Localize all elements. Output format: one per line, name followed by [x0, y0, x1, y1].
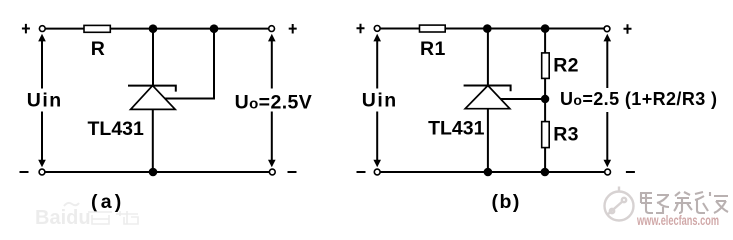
wire (top, R1 to output terminal, circuit b): [445, 28, 604, 30]
node junction dot (divider top, circuit b): [541, 24, 550, 33]
svg-text:R2: R2: [553, 54, 579, 76]
svg-text:Uin: Uin: [362, 89, 398, 111]
node + (top-left, circuit b): [357, 24, 365, 34]
TL431 U2 cathode bar: [464, 86, 511, 92]
node junction dot (ref branch, circuit a): [210, 24, 219, 33]
svg-text:TL431: TL431: [88, 118, 145, 140]
TL431 U1 triangle: [131, 86, 176, 110]
terminal circle (bottom-right, circuit a): [269, 169, 275, 175]
Uin voltage arrow (circuit b): [373, 34, 381, 168]
node junction dot (anode to ground rail, circuit a): [149, 168, 158, 177]
svg-text:R: R: [91, 38, 105, 60]
watermark elecfans brand characters (decorative): [640, 192, 728, 213]
node + (top-right, circuit b): [624, 24, 632, 34]
node junction dot (anode to ground rail, circuit b): [484, 168, 493, 177]
wire (bottom rail, circuit a): [45, 171, 269, 173]
watermark elecfans logo (decorative): [605, 187, 634, 221]
TL431 U1 cathode bar: [128, 86, 176, 92]
wire (reference to divider midpoint, circuit b): [501, 98, 545, 100]
node junction dot (cathode, circuit b): [483, 24, 492, 33]
wire (bottom rail, circuit b): [380, 171, 605, 173]
terminal circle (bottom-left, circuit a): [39, 169, 45, 175]
terminal circle (top-right, circuit a): [269, 26, 275, 32]
node junction dot (divider bottom, circuit b): [541, 168, 550, 177]
terminal circle (bottom-left, circuit b): [374, 169, 380, 175]
wire (reference connection, circuit a): [165, 29, 214, 99]
svg-text:R3: R3: [553, 124, 579, 146]
node junction dot (cathode, circuit a): [149, 24, 158, 33]
node junction dot (divider midpoint, circuit b): [541, 95, 549, 103]
svg-text:www.elecfans.com: www.elecfans.com: [636, 213, 719, 228]
Uo voltage arrow (circuit a): [268, 34, 276, 168]
resistor R3: [542, 122, 550, 148]
terminal circle (bottom-right, circuit b): [605, 169, 611, 175]
wire (divider top lead, circuit b): [544, 29, 546, 53]
node + (top-left, circuit a): [22, 24, 30, 34]
svg-text:TL431: TL431: [428, 118, 485, 140]
svg-text:Uin: Uin: [27, 89, 63, 111]
terminal circle (top-left input, circuit b): [374, 26, 380, 32]
svg-text:Baidu: Baidu: [35, 207, 91, 229]
watermark baidu baike (decorative): [35, 203, 138, 229]
resistor R2: [542, 53, 550, 79]
wire (cathode lead down, circuit b): [487, 29, 489, 86]
wire (anode lead down, circuit b): [487, 109, 489, 172]
wire (top, terminal to R, circuit a): [45, 28, 84, 30]
node - (bottom-right, circuit a): [288, 171, 297, 173]
svg-text:R1: R1: [420, 38, 446, 60]
TL431 U2 triangle: [465, 86, 510, 109]
terminal circle (top-left input, circuit a): [39, 26, 45, 32]
svg-text:(b): (b): [492, 191, 521, 213]
node - (bottom-right, circuit b): [626, 171, 635, 173]
wire (R2 to R3, circuit b): [544, 78, 546, 121]
wire (top, terminal to R1, circuit b): [380, 28, 419, 30]
wire (R3 to ground rail, circuit b): [544, 148, 546, 172]
terminal circle (top-right, circuit b): [604, 26, 610, 32]
svg-text:Uo=2.5V: Uo=2.5V: [235, 91, 313, 113]
wire (anode lead down, circuit a): [152, 109, 154, 172]
wire (cathode lead down, circuit a): [152, 29, 154, 86]
Uo voltage arrow (circuit b): [604, 34, 612, 168]
resistor R: [84, 25, 110, 32]
node - (bottom-left, circuit a): [20, 171, 29, 173]
wire (top, R to output terminal, circuit a): [110, 28, 268, 30]
resistor R1: [420, 25, 446, 32]
node + (top-right, circuit a): [289, 24, 297, 34]
svg-text:Uo=2.5 (1+R2/R3 ): Uo=2.5 (1+R2/R3 ): [560, 89, 717, 109]
svg-text:(a): (a): [91, 191, 124, 213]
Uin voltage arrow (circuit a): [38, 34, 46, 168]
node - (bottom-left, circuit b): [357, 171, 366, 173]
